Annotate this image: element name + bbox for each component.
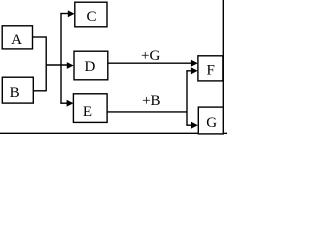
svg-text:A: A: [11, 32, 22, 48]
svg-text:G: G: [206, 115, 217, 131]
svg-text:+B: +B: [142, 93, 160, 109]
arrowhead into F (from D): [191, 60, 198, 67]
arrowhead into E: [67, 100, 74, 107]
svg-text:B: B: [10, 85, 20, 101]
box B: [2, 77, 33, 103]
svg-text:D: D: [84, 59, 95, 75]
wire riser to F: [186, 70, 192, 72]
box E: [73, 94, 107, 123]
box D: [74, 51, 108, 80]
wire riser vertical: [186, 71, 188, 125]
arrowhead into F (from E riser): [191, 67, 198, 74]
wire D output to F: [108, 62, 192, 64]
svg-text:+G: +G: [141, 48, 160, 64]
svg-text:E: E: [83, 104, 92, 120]
arrowhead into G: [191, 122, 198, 129]
svg-text:C: C: [86, 9, 96, 25]
frame right border: [222, 0, 224, 133]
wire B output: [33, 90, 46, 92]
wire branch vertical C/E: [60, 14, 62, 104]
wire riser to G: [186, 124, 192, 126]
wire A output: [33, 36, 47, 38]
wire to E: [60, 102, 67, 104]
wire to C: [60, 13, 69, 15]
box G: [198, 107, 223, 134]
box F: [198, 56, 223, 81]
arrowhead into C: [68, 10, 75, 17]
arrowhead into D: [67, 62, 74, 69]
wire bracket vertical A/B join: [45, 36, 47, 91]
wire connector to D: [46, 64, 68, 66]
wire E output: [107, 111, 187, 113]
box C: [75, 2, 107, 27]
frame bottom border: [0, 132, 227, 134]
box A: [2, 26, 32, 49]
svg-text:F: F: [207, 63, 215, 79]
